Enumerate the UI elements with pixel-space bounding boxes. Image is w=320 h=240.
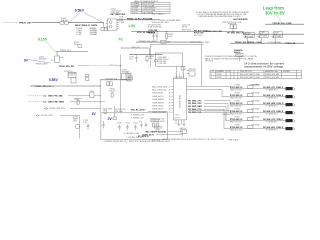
junction dots misc bbox=[57, 22, 234, 132]
svg-text:J7 SNS: J7 SNS bbox=[234, 92, 239, 94]
svg-text:1.5V: 1.5V bbox=[128, 24, 136, 28]
diode D7040 bbox=[167, 41, 171, 43]
connector J4 pin bbox=[286, 111, 293, 114]
capacitor C7010 bbox=[101, 27, 104, 31]
sense row 1 bbox=[230, 84, 295, 91]
svg-text:SOT23-5: SOT23-5 bbox=[68, 75, 75, 77]
svg-text:PM_ISNS_BUS_CONN_R: PM_ISNS_BUS_CONN_R bbox=[263, 127, 284, 129]
junction dot bbox=[150, 56, 151, 57]
sense row 3 bbox=[230, 100, 295, 107]
wire box feeds to IC pins bbox=[176, 66, 183, 78]
svg-text:FB 600R: FB 600R bbox=[148, 32, 156, 34]
pin sym y101.6 bbox=[43, 101, 47, 103]
inductor L7040 bbox=[161, 40, 166, 43]
svg-text:N SB PLACE: N SB PLACE bbox=[228, 139, 239, 142]
pin sym y85 bbox=[30, 85, 34, 87]
box main low side frame bbox=[101, 113, 168, 140]
svg-text:MEASURED NET: MEASURED NET bbox=[265, 70, 278, 73]
capacitor C7021 bbox=[152, 32, 154, 41]
svg-text:ISNS_BUS 2010: ISNS_BUS 2010 bbox=[230, 129, 242, 131]
svg-text:SSM3J32: SSM3J32 bbox=[39, 58, 46, 60]
wire riser x79.5 bbox=[79, 116, 81, 139]
ground sym 1 bbox=[177, 124, 180, 126]
svg-text:2: 2 bbox=[211, 77, 212, 79]
wire U7100 right pins bbox=[117, 20, 119, 28]
svg-text:R SB STUFF GD: R SB STUFF GD bbox=[148, 26, 162, 28]
wire y107.9 bbox=[70, 108, 100, 110]
svg-text:LOW-SIDE-SENSE ON SOME PINS RE: LOW-SIDE-SENSE ON SOME PINS RESET-COUNT bbox=[198, 16, 242, 18]
svg-text:PM_EN_P3V3: PM_EN_P3V3 bbox=[41, 115, 53, 117]
wire mid rail bbox=[133, 31, 243, 33]
capacitor C7701 body bbox=[87, 123, 90, 130]
svg-text:18: 18 bbox=[169, 96, 171, 98]
svg-text:PPBUS_S0V_BRIDGE_CHGR: PPBUS_S0V_BRIDGE_CHGR bbox=[235, 42, 262, 44]
resistor row1 bbox=[248, 85, 253, 88]
svg-text:R7411 100K: R7411 100K bbox=[158, 61, 168, 63]
wire C7610 down bbox=[182, 133, 184, 136]
wire R7210 down bbox=[238, 56, 240, 61]
svg-text:9 8 7 6: 9 8 7 6 bbox=[175, 115, 180, 117]
capacitor C7022 bbox=[156, 32, 158, 41]
wires lower mid to right bbox=[189, 111, 231, 113]
svg-text:TMP SNS: TMP SNS bbox=[115, 111, 123, 113]
wire SMC_RESET bbox=[167, 131, 183, 133]
wire row2 bbox=[230, 96, 286, 98]
svg-text:CHGR_BOOT: CHGR_BOOT bbox=[152, 109, 164, 111]
wire down x149 bbox=[148, 48, 150, 55]
svg-text:15A MAX: 15A MAX bbox=[90, 33, 98, 36]
svg-text:R7210: R7210 bbox=[217, 74, 222, 76]
svg-text:PPVBAT_G3H_CHGR: PPVBAT_G3H_CHGR bbox=[139, 40, 158, 43]
wire riser x97 bbox=[99, 80, 101, 113]
wire y85.4 bbox=[34, 85, 100, 87]
wire y101.6 cont bbox=[70, 99, 105, 102]
svg-text:PP_SNS_VFB_CHG: PP_SNS_VFB_CHG bbox=[227, 33, 245, 35]
svg-text:R7306 0R02 1%: R7306 0R02 1% bbox=[230, 127, 243, 129]
svg-text:C7150: C7150 bbox=[129, 57, 134, 59]
table T1 frame bbox=[131, 2, 170, 14]
svg-text:R7211: R7211 bbox=[217, 77, 222, 79]
svg-text:J7 SNS: J7 SNS bbox=[234, 108, 239, 110]
svg-text:RES 0.002 OHM 1% 2010: RES 0.002 OHM 1% 2010 bbox=[240, 77, 260, 79]
svg-text:R7304 0R02 1%: R7304 0R02 1% bbox=[230, 110, 243, 113]
IC right pin wires upper bbox=[187, 87, 230, 97]
svg-text:SMC_CHGR_SCL: SMC_CHGR_SCL bbox=[152, 90, 167, 92]
wire green pointer bbox=[46, 41, 59, 56]
svg-text:DIVIDER: DIVIDER bbox=[283, 71, 291, 73]
svg-text:ISNS_SYS 2010: ISNS_SYS 2010 bbox=[230, 121, 242, 123]
svg-text:2 GND: 2 GND bbox=[119, 22, 125, 24]
dashed wire row y101.6 bbox=[28, 101, 43, 103]
svg-text:1: 1 bbox=[211, 74, 212, 76]
svg-text:14: 14 bbox=[169, 109, 171, 111]
svg-text:PM_ISNS_SYS_CONN_R: PM_ISNS_SYS_CONN_R bbox=[263, 119, 284, 121]
sense row 2 bbox=[230, 92, 295, 99]
capacitor C7703 bbox=[102, 121, 105, 128]
connector J3 pin bbox=[286, 103, 293, 106]
svg-text:5.5EV: 5.5EV bbox=[49, 78, 59, 82]
svg-text:PPBUS_SNS_RTN: PPBUS_SNS_RTN bbox=[49, 108, 65, 110]
IC left pin rows bbox=[152, 85, 173, 114]
resistor row5 bbox=[248, 117, 253, 120]
svg-text:DESCRIPTION: DESCRIPTION bbox=[240, 71, 252, 73]
svg-text:PPBUS_S0_HS_CPUVCORE: PPBUS_S0_HS_CPUVCORE bbox=[127, 18, 153, 20]
resistor R7151 bbox=[146, 55, 148, 57]
table T1 column divider bbox=[141, 2, 143, 14]
resistor row3 bbox=[248, 101, 253, 104]
svg-text:21: 21 bbox=[169, 86, 171, 88]
svg-text:Q7190: Q7190 bbox=[274, 33, 279, 35]
svg-text:0V: 0V bbox=[24, 58, 29, 62]
svg-text:R7303 0R02 1%: R7303 0R02 1% bbox=[230, 103, 243, 105]
wire y77.8 bbox=[100, 79, 127, 81]
wire net PPBUS_S0 bbox=[117, 19, 160, 21]
svg-text:J7 SNS: J7 SNS bbox=[234, 100, 239, 102]
svg-text:TIE PIN 4: TIE PIN 4 bbox=[205, 61, 213, 63]
wire stub cluster to rail bbox=[232, 29, 234, 32]
wire y115.5 bbox=[60, 115, 80, 117]
svg-text:NO STUFF: NO STUFF bbox=[151, 121, 159, 123]
sense row 5 bbox=[230, 116, 295, 123]
svg-text:ISNS_PHB_SNSR: ISNS_PHB_SNSR bbox=[48, 102, 64, 104]
svg-text:CHGR_VDDP: CHGR_VDDP bbox=[152, 106, 164, 108]
svg-text:PPBUS_G3H_CHG: PPBUS_G3H_CHG bbox=[205, 31, 222, 33]
svg-text:J7 SNS: J7 SNS bbox=[234, 116, 239, 118]
wire row6 bbox=[230, 128, 286, 130]
svg-text:V_SENSE+0.135: V_SENSE+0.135 bbox=[131, 115, 144, 117]
wire U7600 top pins bbox=[176, 74, 183, 78]
svg-text:SMC_CHGR_SDA: SMC_CHGR_SDA bbox=[152, 85, 168, 88]
svg-text:SBLK PPBUS OC LIMITS: SBLK PPBUS OC LIMITS bbox=[75, 25, 98, 27]
resistor R7210 bbox=[236, 53, 243, 56]
svg-text:16: 16 bbox=[169, 102, 171, 104]
wire top right rail bbox=[265, 23, 304, 25]
svg-text:CAUTION REVERSED PIN FOR 20V I: CAUTION REVERSED PIN FOR 20V INPUT SUPPL… bbox=[162, 138, 225, 141]
svg-text:C7720: C7720 bbox=[117, 123, 122, 125]
resistor row4 bbox=[248, 109, 253, 112]
svg-text:TO PP8V8 RAIL: TO PP8V8 RAIL bbox=[268, 41, 281, 44]
connector J5 pin bbox=[286, 119, 293, 122]
svg-text:PM_SNS_VDD: PM_SNS_VDD bbox=[106, 79, 118, 81]
wire to center bbox=[117, 65, 121, 67]
table T1 rows bbox=[131, 5, 170, 12]
svg-text:T_GROUND (1W) RTN: T_GROUND (1W) RTN bbox=[126, 137, 144, 139]
svg-text:E YEL: E YEL bbox=[77, 34, 82, 36]
wire riser to transistor row bbox=[242, 32, 244, 35]
transistor Q7180 circle bbox=[244, 36, 246, 38]
wire reg rail bbox=[78, 65, 88, 67]
transistor Q7100 body bbox=[55, 56, 60, 63]
sub-circuit box K1 bbox=[155, 53, 182, 66]
wire pointer right bbox=[84, 13, 102, 22]
svg-text:RES 0.002 OHM 1% 2010: RES 0.002 OHM 1% 2010 bbox=[240, 74, 260, 76]
transistor Q7410 circle bbox=[154, 59, 157, 62]
svg-text:J7 SNS: J7 SNS bbox=[234, 124, 239, 126]
connector J6 pin bbox=[286, 127, 293, 130]
svg-text:LAST MODIFIED: LAST MODIFIED bbox=[233, 18, 248, 21]
svg-text:NUMBER: NUMBER bbox=[217, 71, 225, 73]
fuse F7130 body bbox=[230, 25, 233, 29]
wire rail after fuse bbox=[68, 22, 103, 24]
transistor Q2 circle bbox=[109, 25, 112, 28]
table T2 column lines bbox=[216, 70, 297, 78]
junction dots row bbox=[243, 34, 244, 35]
svg-text:S BB SNS: S BB SNS bbox=[222, 114, 231, 116]
connector J1 pin bbox=[286, 87, 293, 90]
svg-text:17: 17 bbox=[169, 99, 171, 101]
svg-text:ISNS_CPU 2010: ISNS_CPU 2010 bbox=[230, 89, 242, 91]
wire U7600 bottom pins bbox=[176, 120, 184, 124]
IC right net labels bbox=[188, 100, 230, 128]
transistor Q1 circle bbox=[109, 21, 112, 24]
wire rail end down bbox=[200, 42, 202, 86]
transistor Q7700 circle bbox=[75, 124, 80, 129]
svg-text:CHGR_ACOK: CHGR_ACOK bbox=[152, 95, 164, 98]
svg-text:PM_ISNS_MEM_CONN_R: PM_ISNS_MEM_CONN_R bbox=[263, 103, 284, 105]
svg-text:CURRENT SENSE NET VR_I_SNS-P R: CURRENT SENSE NET VR_I_SNS-P ROUTE AS KE… bbox=[104, 140, 171, 143]
wire bottom right rail bbox=[230, 42, 304, 44]
wire left drop bbox=[149, 45, 151, 67]
svg-text:19: 19 bbox=[169, 93, 171, 95]
wire stub down to caps bbox=[103, 23, 105, 27]
svg-text:J7 SNS: J7 SNS bbox=[234, 84, 239, 86]
svg-text:R7301 0R02 1%: R7301 0R02 1% bbox=[230, 87, 243, 89]
svg-text:30V to 8V: 30V to 8V bbox=[265, 10, 285, 15]
fuse F7000 bbox=[60, 21, 64, 24]
resistor R7420 bbox=[181, 67, 185, 70]
wire row5 bbox=[230, 120, 286, 122]
svg-text:V_SENSE-0.135: V_SENSE-0.135 bbox=[131, 118, 144, 120]
wire row3 bbox=[230, 104, 286, 106]
svg-text:ISNS_PCH 2010: ISNS_PCH 2010 bbox=[230, 113, 242, 115]
svg-text:ISNS_PHA_SNS: ISNS_PHA_SNS bbox=[48, 95, 63, 98]
svg-text:ISNS_MEM 2010: ISNS_MEM 2010 bbox=[230, 105, 242, 107]
svg-text:10K 1%: 10K 1% bbox=[109, 90, 115, 92]
wire pointer left bbox=[70, 13, 81, 22]
svg-text:MF NT: MF NT bbox=[182, 26, 188, 28]
svg-text:SNS HI: SNS HI bbox=[234, 52, 241, 54]
transistor Q7190 box bbox=[273, 32, 282, 38]
resistor row2 bbox=[248, 93, 253, 96]
svg-text:7V: 7V bbox=[118, 38, 123, 42]
sense row 6 bbox=[230, 124, 295, 131]
svg-text:ISNS_GPU 2010: ISNS_GPU 2010 bbox=[230, 97, 242, 99]
svg-text:G G P V: G G P V bbox=[175, 118, 181, 120]
svg-text:PM_ISNS_GPU: PM_ISNS_GPU bbox=[188, 103, 202, 105]
svg-text:CHGR_BMON: CHGR_BMON bbox=[152, 102, 164, 104]
svg-text:PPBUS_G3H_P: PPBUS_G3H_P bbox=[36, 64, 49, 66]
svg-text:20: 20 bbox=[169, 90, 171, 92]
svg-text:ISL6259 CHGR: ISL6259 CHGR bbox=[179, 94, 181, 108]
connector J2 pin bbox=[286, 95, 293, 98]
svg-text:measurement on S0V voltage.: measurement on S0V voltage. bbox=[244, 64, 284, 68]
ground sym 2 bbox=[183, 124, 186, 126]
wire PPBUS_G3H main rail (dashed lead-in) bbox=[3, 22, 18, 24]
svg-text:PM_ISNS_MEM: PM_ISNS_MEM bbox=[188, 106, 202, 108]
svg-text:5 VOLT: 5 VOLT bbox=[132, 12, 138, 14]
connector J7620 bbox=[189, 69, 195, 76]
resistor R7000 bbox=[65, 21, 69, 24]
small boxes above bbox=[107, 82, 109, 86]
svg-text:PP5V_S4: PP5V_S4 bbox=[132, 47, 139, 49]
resistor row6 bbox=[248, 125, 253, 128]
svg-text:PPBUS_G3H: PPBUS_G3H bbox=[19, 23, 32, 25]
transistor Q7185 circle bbox=[258, 36, 260, 38]
wire row4 bbox=[230, 112, 286, 114]
pin sym y95.5 bbox=[43, 95, 47, 97]
svg-text:HS COMPUTING: HS COMPUTING bbox=[111, 14, 126, 16]
svg-text:2: 2 bbox=[179, 73, 180, 75]
wire main rail to fuse bbox=[32, 22, 61, 24]
transistor Q7190 circle bbox=[272, 36, 274, 38]
node arrow pin mid rail bbox=[131, 31, 133, 33]
wire center vertical bbox=[120, 55, 122, 113]
svg-text:P5VS0_REG_INP: P5VS0_REG_INP bbox=[59, 66, 75, 68]
svg-text:13: 13 bbox=[169, 112, 171, 114]
svg-text:C7412 1NF: C7412 1NF bbox=[158, 63, 166, 65]
svg-text:J7620: J7620 bbox=[190, 71, 194, 73]
pin sym y115.5 bbox=[36, 115, 39, 117]
wire y95.5 to riser bbox=[94, 95, 100, 97]
wire stubs down from transistors bbox=[248, 38, 276, 44]
wire row1 bbox=[230, 88, 286, 90]
svg-text:SNS AMP: SNS AMP bbox=[122, 71, 130, 74]
svg-text:PP3V3_S5 SENSE PATH: PP3V3_S5 SENSE PATH bbox=[160, 19, 181, 22]
wire bend lower right bbox=[225, 112, 227, 121]
wire U7100 left pins bbox=[106, 21, 108, 29]
svg-text:R7151: R7151 bbox=[149, 56, 154, 58]
svg-text:U7600 SMC: U7600 SMC bbox=[174, 77, 184, 79]
dashed wire row y95.5 bbox=[28, 95, 43, 97]
capacitor C7011 bbox=[105, 27, 108, 31]
transistor Q7180 box bbox=[245, 32, 254, 37]
svg-text:R7302 0R02 1%: R7302 0R02 1% bbox=[230, 95, 243, 97]
capacitor C7610 bbox=[181, 129, 187, 133]
svg-text:15: 15 bbox=[169, 106, 171, 108]
table T2 frame bbox=[210, 70, 302, 78]
regulator U7500 body bbox=[71, 78, 76, 83]
svg-text:SEE P.USAGE: SEE P.USAGE bbox=[152, 13, 165, 16]
svg-text:PRES DETECT: PRES DETECT bbox=[158, 59, 169, 61]
svg-text:PM_ISNS_GPU_CONN_R: PM_ISNS_GPU_CONN_R bbox=[263, 95, 284, 97]
svg-text:FDMC 510: FDMC 510 bbox=[260, 34, 268, 36]
pin sym y107.9 bbox=[44, 108, 48, 110]
wire pointer from note bbox=[277, 16, 282, 24]
wire acok bbox=[148, 110, 168, 112]
svg-text:CHGR_AMON: CHGR_AMON bbox=[152, 98, 164, 101]
svg-text:PPBUS_S5V_SNS: PPBUS_S5V_SNS bbox=[265, 77, 280, 79]
resistor R7025 bbox=[165, 32, 167, 34]
wire drain rail bbox=[57, 51, 88, 53]
resistor R7540 body bbox=[111, 91, 113, 94]
wire blue pointer bbox=[29, 60, 51, 63]
svg-text:V_GND/SNS LOCAL: V_GND/SNS LOCAL bbox=[124, 132, 140, 135]
svg-text:SMC_BC_ACOK: SMC_BC_ACOK bbox=[131, 108, 146, 111]
sense row 4 bbox=[230, 108, 295, 115]
svg-text:35A 32V: 35A 32V bbox=[61, 19, 69, 22]
svg-text:R7613 10K: R7613 10K bbox=[154, 128, 163, 130]
svg-text:Q7180: Q7180 bbox=[246, 33, 251, 35]
svg-text:PM_ISNS_CPU: PM_ISNS_CPU bbox=[188, 100, 202, 102]
op-amp U7100 body bbox=[107, 19, 117, 30]
svg-text:3 SW: 3 SW bbox=[119, 20, 123, 22]
svg-text:3904: 3904 bbox=[73, 120, 77, 122]
wire drain up bbox=[56, 52, 58, 57]
svg-text:C7721: C7721 bbox=[125, 123, 130, 125]
svg-text:6.5EV: 6.5EV bbox=[75, 8, 85, 12]
resistor R7520 body bbox=[127, 78, 131, 81]
svg-text:CHGR_ACIN: CHGR_ACIN bbox=[152, 92, 163, 95]
wire rail y54.6 bbox=[129, 54, 163, 56]
svg-text:R7305 0R02 1%: R7305 0R02 1% bbox=[230, 119, 243, 121]
wire y42 branch bbox=[136, 41, 201, 43]
svg-text:PP8V2_SB: PP8V2_SB bbox=[286, 43, 296, 45]
svg-text:PPBUS_S0V_SNS: PPBUS_S0V_SNS bbox=[265, 74, 280, 76]
resistor R7105 body bbox=[78, 45, 81, 48]
svg-text:FB10 600R: FB10 600R bbox=[182, 30, 192, 32]
wire CHGR_EN bbox=[156, 134, 182, 136]
table T2 row lines bbox=[210, 73, 302, 76]
svg-text:PM_ISNS_PCH_CONN_R: PM_ISNS_PCH_CONN_R bbox=[263, 111, 284, 113]
resistor R7502 bbox=[86, 78, 89, 81]
svg-text:0V: 0V bbox=[108, 117, 113, 121]
svg-text:PP5V_S5: PP5V_S5 bbox=[109, 65, 116, 67]
wire component row rail bbox=[243, 33, 304, 35]
transistor Q7185 box bbox=[259, 31, 268, 37]
svg-text:PM_ISNS_CPU_CONN_R: PM_ISNS_CPU_CONN_R bbox=[263, 87, 284, 89]
wire y48 branch bbox=[121, 47, 150, 49]
svg-text:FDMC 510: FDMC 510 bbox=[274, 34, 282, 36]
svg-text:SMC_RESET_L(CHGR): SMC_RESET_L(CHGR) bbox=[145, 131, 166, 133]
wire y95.5 cont bbox=[68, 95, 89, 97]
svg-text:C7722: C7722 bbox=[133, 123, 138, 125]
svg-text:3V: 3V bbox=[92, 112, 97, 116]
svg-text:Q7185: Q7185 bbox=[260, 32, 265, 34]
diode D7501 bbox=[86, 74, 89, 77]
wire parallel rail bbox=[150, 44, 203, 46]
wire dashed segment bbox=[88, 65, 109, 67]
IC U7600 body bbox=[173, 78, 186, 120]
svg-text:NTC PULL: NTC PULL bbox=[194, 35, 203, 37]
